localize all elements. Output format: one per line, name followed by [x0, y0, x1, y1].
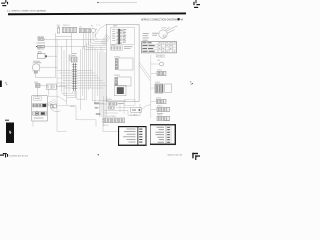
- diagonal wires out of MECH: [47, 99, 57, 106]
- label under AN2: [38, 48, 44, 51]
- pin labels left of CN201: [112, 29, 115, 40]
- svg-text:0403-02 C117-00: 0403-02 C117-00: [168, 154, 183, 156]
- wire from M901 bottom: [36, 73, 56, 77]
- speaker SP901 (box with bump): [38, 52, 48, 59]
- connector CN903 pair box B: [86, 28, 91, 32]
- labels left of P901: [152, 33, 158, 36]
- wire from AN2: [45, 45, 87, 47]
- svg-text:NOTE: NOTE: [104, 125, 110, 127]
- connector strip CN201 (dark column with pins): [117, 29, 122, 44]
- scan streak top edge: [99, 1, 137, 4]
- connector CN502 dark with shell: [151, 82, 172, 93]
- connector CN503: [151, 98, 166, 104]
- head connector row 1 (dark hatch): [33, 104, 47, 107]
- connector CN1 above center strip: [72, 57, 77, 62]
- capacitor C901 (top row small part): [57, 27, 60, 34]
- antenna AN1 (left column part 1): [38, 35, 46, 40]
- label under CN504: [157, 112, 163, 115]
- wire diagonal into board corner: [95, 24, 107, 36]
- text row at block bottom: [34, 117, 44, 120]
- header rule: [8, 13, 186, 16]
- wires around CN204: [104, 96, 140, 116]
- connector CN501 (hatched box right col): [151, 70, 166, 76]
- label row between parts: [37, 42, 46, 45]
- wire bottom run left: [48, 96, 96, 131]
- hook wire below small box: [51, 109, 61, 112]
- inner frame right wire: [133, 45, 135, 102]
- wire harness outline left of top row: [56, 33, 72, 37]
- motor M901 (circle): [32, 64, 40, 72]
- wire from SW1: [40, 85, 48, 87]
- head connector row 2 with jack circle: [33, 112, 47, 116]
- svg-text:CS-W430 (E,K,X) 03.5: CS-W430 (E,K,X) 03.5: [9, 156, 28, 158]
- right column vertical feed wire: [150, 55, 152, 118]
- wire labels right outside board: [143, 33, 149, 40]
- antenna loop P901 (circle assembly top right): [157, 26, 177, 38]
- wire JK1 to right column: [142, 105, 151, 110]
- inline junction ticks group 1: [95, 102, 99, 104]
- parts table B (bottom right): [150, 124, 176, 145]
- wire from SP901: [47, 55, 57, 57]
- connector CN202 with pin strip (inside board): [114, 56, 133, 70]
- motor terminal block: [34, 71, 37, 73]
- scan speckle right: [190, 82, 193, 85]
- wire below MECH: [32, 121, 34, 127]
- LED D1 (small circle part): [151, 60, 164, 66]
- ribbon junction strip J1 (ladder): [72, 63, 77, 91]
- connector CN901 (hatched block): [63, 27, 77, 33]
- svg-text:DC JACK: DC JACK: [130, 113, 138, 116]
- svg-text:WIRING CONNECTION DIAGRAM 2-4A: WIRING CONNECTION DIAGRAM 2-4A: [141, 19, 183, 22]
- parts table A (bottom centre): [118, 126, 147, 146]
- top-right legend table TB1: [142, 42, 177, 53]
- inline junction ticks group 2: [95, 107, 97, 109]
- wire from CN301: [56, 86, 66, 88]
- label above table B: [164, 119, 170, 122]
- svg-text:CN1: CN1: [57, 25, 60, 27]
- ribbon hatch at board left edge: [101, 34, 110, 46]
- twin connectors CN205 CN206 CN208: [102, 116, 124, 123]
- diagonal wire bundle from board to right column: [139, 62, 150, 81]
- svg-text:PWR CD: PWR CD: [63, 25, 71, 27]
- corner trim mark top-left: [1, 0, 8, 6]
- antenna AN2 (left column part 2): [36, 45, 45, 47]
- connector pair CN301: [47, 84, 57, 89]
- tick above tab: [5, 120, 9, 121]
- scan speck top: [97, 2, 98, 3]
- main board outline U900: [106, 24, 139, 101]
- connector row CN204 below board: [106, 99, 124, 105]
- horizontal cross wires through junction: [57, 71, 106, 88]
- connector CN210 row at board top: [111, 44, 133, 50]
- svg-text:LOOP: LOOP: [161, 27, 167, 29]
- fuse F901 round part: [91, 29, 97, 33]
- label under SP901: [33, 60, 40, 63]
- transformer T901 (inside board, dark square): [114, 84, 126, 96]
- vertical wires right of junction: [81, 39, 91, 110]
- small box right of MECH: [51, 104, 76, 112]
- junction stub wires: [94, 103, 104, 114]
- main board inner frame: [111, 27, 135, 44]
- wires leaving junction strip bottom: [62, 91, 85, 99]
- connector CN505: [157, 115, 170, 121]
- wire to table A: [103, 96, 105, 126]
- rotated labels left of CN1: [70, 53, 77, 61]
- jack JK1 small box right: [131, 108, 142, 112]
- corner trim mark top-right: [193, 0, 200, 8]
- wire down from SW1: [37, 87, 39, 96]
- connector CN902 pair box A: [79, 28, 84, 32]
- label inside MECH: [35, 97, 40, 100]
- svg-text:[ * ]: [ * ]: [97, 25, 100, 27]
- corner trim mark bottom-left: [0, 153, 8, 158]
- scan speck bottom centre: [98, 154, 99, 155]
- connector shell right of CN204: [125, 100, 136, 106]
- chapter tab (black, page edge): [6, 123, 14, 144]
- wire CN301 down into MECH: [48, 89, 50, 95]
- connector CN504: [151, 106, 170, 112]
- connector CN203 with pin strip (inside board): [114, 75, 131, 86]
- label inner: [118, 29, 123, 32]
- wire from M901 right: [40, 66, 57, 68]
- pin labels right of CN201: [123, 29, 127, 42]
- wires descending to bottom components: [93, 46, 118, 132]
- page edge mark left: [0, 81, 2, 88]
- inner box of MECH: [34, 97, 42, 100]
- scan speckle left: [5, 82, 7, 85]
- vertical bus wires left of center strip: [56, 37, 72, 105]
- svg-text:F1: F1: [91, 26, 93, 28]
- label right of hook: [70, 105, 75, 108]
- inline junction ticks group 3: [97, 113, 100, 115]
- corner trim mark bottom-right: [192, 153, 200, 160]
- wire from AN1: [44, 38, 98, 40]
- label M901: [33, 61, 41, 64]
- connector CN207 small row: [108, 106, 115, 109]
- cassette mechanism block MECH outline: [32, 96, 48, 121]
- svg-text:PR-00124: PR-00124: [156, 56, 165, 58]
- svg-text:4-2. WIRING CONNECTION DIAGRAM: 4-2. WIRING CONNECTION DIAGRAM: [7, 10, 46, 13]
- sensor S1 small part above cassette block: [34, 82, 40, 87]
- wire fan from top connectors to main board: [84, 33, 107, 49]
